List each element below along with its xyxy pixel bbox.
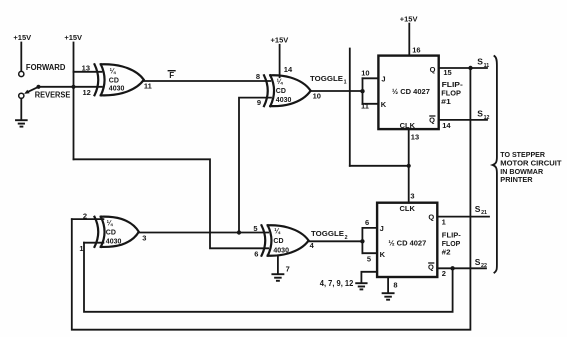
label 1/2 CD 4027 inside FF1 (392, 87, 430, 96)
power +15V label (switch FORWARD supply) (13, 33, 31, 42)
wire pins 4,7,9,12 of FF2 to ground (361, 272, 377, 283)
svg-text:12: 12 (82, 88, 90, 97)
pin label 13 (82, 64, 90, 73)
svg-text:FLOP: FLOP (442, 241, 461, 248)
svg-text:11: 11 (144, 82, 152, 91)
junction TOGGLE1 to J/K split (360, 89, 364, 93)
svg-text:K: K (380, 250, 386, 259)
ground (pin 7 of U1D) (272, 274, 283, 281)
wire CLK pin 13 of FF1 down to CLK pin 3 of FF2 (408, 129, 410, 203)
label F-bar (168, 71, 175, 81)
pin label 6 (254, 250, 258, 259)
wire pin 13 input of gate U1A (74, 71, 102, 73)
label FLIP-FLOP #1 (441, 80, 463, 106)
svg-text:CD: CD (109, 78, 119, 85)
wire F-bar: U1A output to pin 8 of U1B (144, 80, 270, 82)
label FLIP-FLOP #2 (442, 233, 462, 257)
svg-text:+15V: +15V (13, 33, 31, 42)
flip-flop U2B (1/2 CD4027) FF2 box (377, 203, 437, 277)
svg-text:8: 8 (256, 72, 260, 81)
svg-text:14: 14 (442, 121, 451, 130)
svg-text:#2: #2 (442, 249, 451, 256)
ground (below REVERSE terminal) (16, 120, 27, 126)
svg-text:+15V: +15V (271, 36, 289, 45)
wire pin 1 input of U1C (84, 242, 103, 244)
svg-text:4030: 4030 (109, 86, 125, 93)
label Q-bar pin FF2 (428, 262, 434, 271)
pin label 14 (284, 65, 293, 74)
wire clock input line (vertical) (349, 49, 351, 166)
svg-text:12: 12 (484, 115, 490, 121)
wire Q of FF1 to terminal S11 (439, 67, 487, 69)
label TOGGLE2 (311, 229, 348, 241)
svg-text:11: 11 (484, 63, 490, 69)
svg-text:S: S (477, 109, 483, 119)
junction S22 feedback tap (450, 266, 454, 270)
pin label 11 (361, 102, 369, 111)
wire feedback S22 to pin 1 of U1C (inner loop) (84, 243, 453, 312)
svg-text:TOGGLE: TOGGLE (310, 74, 343, 83)
power +15V label (gate U1B pin 14) (271, 36, 289, 45)
wire pin 7 of U1D to ground (277, 256, 279, 274)
svg-text:1: 1 (79, 244, 83, 253)
wire Q-bar of FF1 to terminal S12 (439, 119, 487, 121)
svg-text:13: 13 (82, 64, 90, 73)
svg-text:+15V: +15V (400, 14, 418, 23)
svg-text:16: 16 (412, 46, 420, 55)
svg-text:J: J (380, 224, 384, 233)
xor gate U1A (1/4 CD4030) (95, 64, 144, 95)
wire K input stub FF2 (pin 5) (362, 252, 377, 254)
wire feedback S11 to pin 2 of U1C (outer loop) (72, 68, 471, 330)
pin label 2 (442, 269, 446, 278)
label J pin FF1 (381, 75, 385, 84)
svg-text:FORWARD: FORWARD (26, 63, 66, 72)
svg-text:K: K (381, 100, 387, 109)
svg-text:4030: 4030 (106, 238, 122, 245)
label CLK inside FF2 (399, 204, 415, 213)
svg-text:CLK: CLK (399, 204, 415, 213)
pin label 15 (443, 68, 451, 77)
svg-text:F: F (169, 71, 174, 80)
terminal REVERSE (open circle) (19, 93, 24, 98)
ground (pins 4,7,9,12) (356, 283, 366, 289)
label S12 (477, 109, 489, 121)
svg-text:J: J (381, 75, 385, 84)
label S21 (475, 204, 487, 216)
pin label 1 (gate U1C input) (79, 244, 83, 253)
svg-text:S: S (475, 257, 481, 267)
wire J/K tie of FF2 (361, 228, 363, 253)
svg-text:S: S (477, 57, 483, 67)
svg-text:½ CD 4027: ½ CD 4027 (388, 238, 426, 247)
label REVERSE (35, 91, 71, 100)
svg-text:9: 9 (257, 98, 261, 107)
pin label 3 (410, 191, 414, 200)
svg-text:+15V: +15V (64, 33, 82, 42)
label Q pin FF2 (428, 213, 434, 222)
xor gate U1C (1/4 CD4030) (95, 217, 139, 247)
svg-text:CD: CD (276, 88, 286, 95)
wire +15V vertical down to routing corner (73, 43, 75, 160)
wire pin 2 input of U1C (72, 218, 104, 220)
svg-text:Q: Q (430, 65, 436, 74)
junction switch pole node (36, 85, 40, 89)
pin label 16 (412, 46, 420, 55)
svg-text:Q: Q (429, 115, 435, 124)
switch arm with arrowhead (pole to REVERSE) (28, 87, 39, 92)
wire Q of FF2 to terminal S21 (437, 216, 489, 218)
pin label 5 (367, 255, 371, 264)
junction clock net (407, 164, 411, 168)
svg-text:Q: Q (428, 262, 434, 271)
pin label 7 (286, 265, 290, 274)
label 1/2 CD 4027 inside FF2 (388, 238, 426, 247)
pin label 10 (313, 91, 321, 100)
junction +15V line with REVERSE wire (71, 85, 75, 89)
svg-text:TOGGLE: TOGGLE (311, 229, 344, 238)
wire U1C output to pin 5 of U1D (139, 232, 268, 234)
wire J input stub FF1 (pin 10) (363, 77, 379, 79)
label FORWARD (26, 63, 66, 72)
pin label 3 (142, 234, 146, 243)
svg-text:5: 5 (253, 224, 257, 233)
label 1/4 CD 4030 inside U1C (106, 220, 122, 246)
svg-text:1: 1 (344, 80, 347, 86)
svg-text:4030: 4030 (276, 97, 292, 104)
wire +15V to FORWARD terminal (20, 43, 22, 71)
wire Q-bar of FF2 to terminal S22 (437, 267, 486, 269)
pin label 2 (gate U1C input) (83, 212, 87, 221)
svg-text:15: 15 (443, 68, 451, 77)
svg-text:½ CD 4027: ½ CD 4027 (392, 87, 430, 96)
wire J input stub FF2 (pin 6) (362, 227, 377, 229)
label K pin FF1 (381, 100, 387, 109)
terminal FORWARD (open circle) (19, 71, 24, 76)
svg-text:#1: #1 (441, 97, 451, 106)
label S22 (475, 257, 487, 269)
pin label 13 (411, 133, 419, 142)
pin label 6 (365, 218, 369, 227)
pin label 8 (256, 72, 260, 81)
label K pin FF2 (380, 250, 386, 259)
junction pin5 net with pin9 branch (237, 230, 241, 234)
wire J/K tie of FF1 (362, 78, 364, 104)
brace grouping outputs (493, 56, 497, 273)
svg-text:CD: CD (273, 238, 283, 245)
power +15V label (FF1 pin 16) (400, 14, 418, 23)
wire REVERSE terminal to ground (20, 98, 22, 119)
svg-text:7: 7 (286, 265, 290, 274)
label 1/4 CD 4030 inside U1D (273, 228, 289, 255)
svg-text:2: 2 (345, 235, 348, 241)
label 1/4 CD 4030 inside U1A (109, 68, 125, 93)
label 4, 7, 9, 12 (320, 279, 354, 288)
svg-text:1: 1 (442, 217, 446, 226)
wire K input stub FF1 (pin 11) (363, 103, 379, 105)
xor gate U1B (1/4 CD4030) (264, 75, 311, 106)
svg-text:10: 10 (313, 91, 321, 100)
wire TOGGLE1: U1B output to J/K of FF1 (311, 90, 363, 92)
junction TOGGLE2 to J/K split (360, 239, 364, 243)
pin label 1 (442, 217, 446, 226)
svg-text:REVERSE: REVERSE (35, 91, 71, 100)
wire routing REVERSE net to pin 6 of gate U1D (74, 159, 269, 248)
pin label 9 (257, 98, 261, 107)
pin label 4 (310, 241, 315, 250)
power +15V label (second, feeds pin 13 net) (64, 33, 82, 42)
label 1/4 CD 4030 inside U1B (276, 78, 292, 104)
xor gate U1D (1/4 CD4030) (262, 225, 309, 256)
flip-flop U2A (1/2 CD4027) FF1 box (378, 56, 438, 130)
wire REVERSE node to pin 12 of gate U1A (39, 86, 102, 88)
wire pin 8 of FF2 to ground (387, 277, 389, 293)
svg-text:21: 21 (481, 210, 487, 216)
pin label 10 (361, 68, 369, 77)
pin label 8 (393, 280, 397, 289)
svg-text:CD: CD (106, 229, 116, 236)
svg-text:13: 13 (411, 133, 419, 142)
pin label 14 (442, 121, 451, 130)
svg-text:5: 5 (367, 255, 371, 264)
label J pin FF2 (380, 224, 384, 233)
svg-text:6: 6 (254, 250, 258, 259)
junction S11 feedback tap (468, 66, 472, 70)
svg-text:PRINTER: PRINTER (500, 175, 533, 184)
svg-text:22: 22 (481, 263, 487, 269)
label Q-bar pin FF1 (429, 115, 435, 124)
svg-text:CLK: CLK (400, 121, 416, 130)
wire pin 9 of U1B down to TOGGLE2 input net (239, 98, 271, 233)
svg-text:8: 8 (393, 280, 397, 289)
svg-text:4, 7, 9, 12: 4, 7, 9, 12 (320, 279, 354, 288)
wire clock line to CLK junction (350, 165, 409, 167)
svg-text:11: 11 (361, 102, 369, 111)
svg-text:2: 2 (442, 269, 446, 278)
svg-text:4030: 4030 (273, 248, 289, 255)
label TOGGLE1 (310, 74, 347, 86)
label Q pin FF1 (430, 65, 436, 74)
pin label 12 (82, 88, 90, 97)
svg-text:Q: Q (428, 213, 434, 222)
wire TOGGLE2: U1D output to J/K of FF2 (309, 240, 363, 242)
label TO STEPPER MOTOR CIRCUIT IN BOWMAR PRINTER (500, 150, 562, 184)
wire +15V to pin 14 of U1B (279, 45, 281, 77)
svg-text:14: 14 (284, 65, 293, 74)
svg-text:FLIP-: FLIP- (442, 233, 462, 240)
pin label 5 (253, 224, 257, 233)
svg-text:3: 3 (142, 234, 146, 243)
svg-text:3: 3 (410, 191, 414, 200)
pin label 11 (144, 82, 152, 91)
svg-text:S: S (475, 204, 481, 214)
wire +15V to pin 16 of FF1 (408, 24, 410, 56)
svg-text:6: 6 (365, 218, 369, 227)
svg-text:10: 10 (361, 68, 369, 77)
label CLK inside FF1 (400, 121, 416, 130)
ground (pin 8 of FF2) (383, 293, 394, 300)
label S11 (477, 57, 489, 69)
